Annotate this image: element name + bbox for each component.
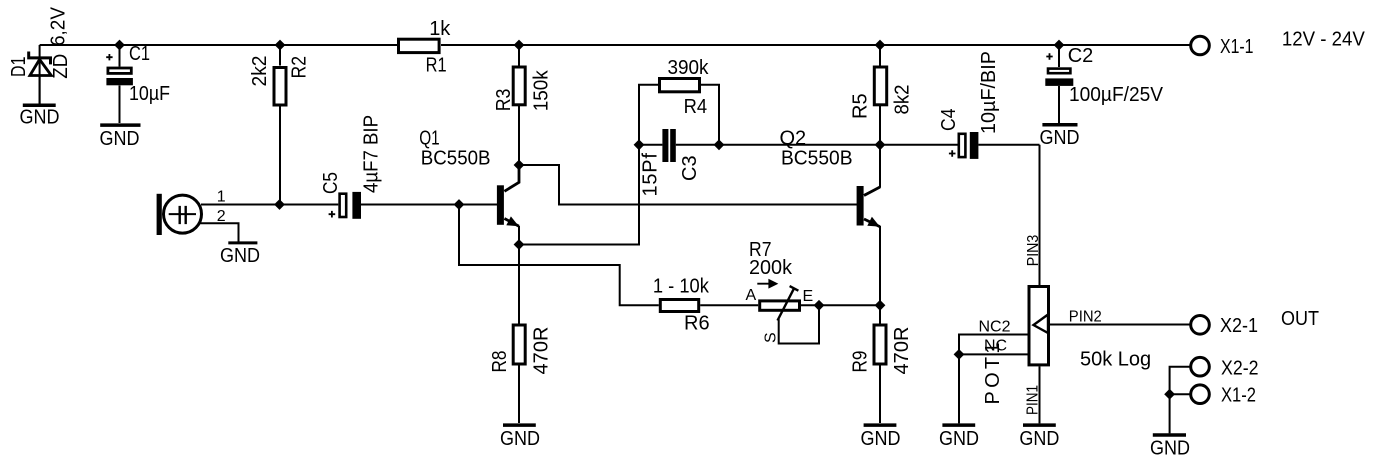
svg-text:10µF: 10µF (129, 83, 170, 105)
ground D1 (23, 104, 56, 108)
wire C3 node to R5 bottom to C4 (719, 144, 958, 146)
svg-text:X1-2: X1-2 (1221, 385, 1256, 407)
wire mic pin2 to gnd (200, 223, 239, 241)
wire R2 leads (279, 45, 281, 205)
transistor Q2 (857, 186, 880, 227)
wire Q1 emitter down to R8 and gnd (518, 226, 520, 423)
node Q1 base (454, 199, 465, 210)
transistor Q1 (497, 165, 519, 226)
resistor R2 (274, 68, 286, 106)
node R2 top (275, 40, 286, 51)
node C3 right (714, 139, 725, 150)
wire top rail left (40, 44, 399, 46)
svg-text:1: 1 (217, 189, 226, 206)
node Q1 collector (514, 160, 525, 171)
svg-text:Q1: Q1 (419, 128, 440, 150)
wire mic pin1 to C5 (201, 204, 338, 206)
svg-text:1 - 10k: 1 - 10k (653, 275, 710, 297)
svg-text:NC: NC (984, 338, 1007, 355)
resistor R4 (660, 79, 700, 92)
svg-text:R9: R9 (849, 351, 871, 373)
node Q2 collector (875, 139, 886, 150)
ground R9 (864, 423, 897, 427)
wire R7 E to Q2 emitter node (801, 304, 880, 306)
svg-text:C5: C5 (320, 172, 342, 194)
svg-text:R2: R2 (289, 56, 311, 79)
svg-text:150k: 150k (530, 69, 552, 111)
terminal X1-1 (1191, 36, 1210, 55)
wire pot NC (959, 354, 1029, 423)
ground C2 (1042, 123, 1077, 127)
wire R7 S loop (779, 305, 819, 343)
node Q2 emitter (875, 300, 886, 311)
resistor R5 (874, 67, 886, 105)
svg-text:PIN1: PIN1 (1025, 385, 1042, 415)
svg-text:GND: GND (1040, 127, 1080, 149)
wire X2-2 X1-2 to gnd (1170, 367, 1191, 434)
resistor R9 (874, 325, 886, 364)
wire D1 vertical (39, 45, 41, 104)
svg-text:GND: GND (861, 428, 901, 450)
svg-text:PIN3: PIN3 (1025, 235, 1042, 267)
svg-text:R5: R5 (850, 93, 872, 119)
ground R8 (503, 423, 536, 427)
wire pot pin2 to X2-1 (1050, 324, 1191, 326)
svg-text:470R: 470R (531, 327, 553, 375)
svg-text:R1: R1 (426, 55, 447, 77)
ground X terminals (1153, 433, 1186, 437)
svg-text:OUT: OUT (1281, 308, 1319, 330)
wire R3 leads (518, 45, 520, 165)
wire R6 to R7 (700, 304, 758, 306)
potentiometer POT1 (1029, 287, 1049, 365)
ground POT1 left (942, 423, 975, 427)
node Q1 emitter (514, 239, 525, 250)
svg-text:A: A (746, 287, 757, 304)
svg-text:BC550B: BC550B (421, 148, 491, 170)
svg-text:2k2: 2k2 (249, 56, 271, 87)
svg-text:X1-1: X1-1 (1220, 36, 1254, 58)
svg-text:ZD: ZD (50, 54, 72, 79)
svg-text:10µF/BIP: 10µF/BIP (978, 51, 1000, 134)
svg-text:D1: D1 (8, 57, 30, 78)
wire C5 to Q1 base (361, 204, 497, 206)
svg-text:X2-2: X2-2 (1221, 358, 1259, 380)
svg-text:4µF7 BIP: 4µF7 BIP (361, 115, 383, 193)
wire top rail right (441, 44, 1191, 46)
svg-text:GND: GND (500, 428, 540, 450)
svg-text:C1: C1 (129, 43, 150, 65)
svg-text:R4: R4 (684, 96, 708, 118)
wire pot pin1 to gnd (1039, 366, 1041, 423)
node X1-2 stub (1164, 389, 1175, 400)
trimmer R7 (757, 280, 799, 320)
node C3 left (634, 139, 645, 150)
resistor R1 (399, 39, 440, 52)
resistor R3 (513, 67, 525, 105)
node C2 top (1054, 40, 1065, 51)
svg-text:R3: R3 (493, 89, 515, 112)
svg-text:C3: C3 (679, 155, 701, 181)
svg-text:50k Log: 50k Log (1080, 348, 1151, 370)
node R7 E (814, 300, 825, 311)
svg-text:12V - 24V: 12V - 24V (1282, 29, 1366, 51)
wire Q1 base tap to R6 (459, 205, 659, 306)
capacitor C5 (329, 192, 361, 219)
microphone MIC (157, 194, 202, 235)
wire C2 leads (1058, 45, 1060, 123)
svg-text:GND: GND (20, 107, 60, 129)
wire C3 leads (639, 144, 719, 146)
capacitor C2 (1045, 53, 1073, 86)
resistor R6 (660, 300, 698, 312)
svg-text:6,2V: 6,2V (48, 6, 70, 46)
node C1 top (114, 40, 125, 51)
svg-text:Q2: Q2 (780, 128, 807, 150)
svg-text:C2: C2 (1068, 45, 1094, 67)
wire R4 loop left (639, 85, 659, 145)
svg-text:S: S (763, 332, 780, 343)
svg-text:X2-1: X2-1 (1220, 315, 1258, 337)
terminal X2-1 (1191, 316, 1210, 335)
wire Q1 collector to Q2 base (519, 165, 857, 205)
wire feedback Q1 emitter to C3 node (519, 145, 639, 245)
svg-text:1k: 1k (429, 18, 451, 40)
terminal X2-2 (1191, 357, 1210, 376)
svg-text:15Pf: 15Pf (640, 153, 662, 197)
svg-text:470R: 470R (891, 327, 913, 375)
svg-text:C4: C4 (938, 109, 960, 132)
ground POT1 pin1 (1023, 423, 1056, 427)
ground C1 (100, 123, 140, 127)
wire R4 loop right (701, 85, 720, 145)
wire C4 to pot pin3 (978, 145, 1039, 286)
wire Q2 emitter down to R9 and gnd (879, 226, 881, 423)
node R5 top (875, 40, 886, 51)
wire R5 leads (879, 45, 881, 145)
capacitor C3 (662, 129, 675, 162)
node NC join (954, 349, 965, 360)
svg-text:GND: GND (939, 428, 979, 450)
svg-text:100µF/25V: 100µF/25V (1069, 84, 1164, 106)
ground mic (228, 241, 257, 244)
zener diode D1 (27, 52, 52, 105)
capacitor C1 (106, 54, 133, 85)
svg-text:8k2: 8k2 (892, 85, 914, 115)
svg-text:GND: GND (1150, 438, 1190, 460)
node R3 top (514, 40, 525, 51)
node mic R2 C5 (274, 199, 285, 210)
svg-text:GND: GND (1019, 428, 1059, 450)
svg-text:PIN2: PIN2 (1069, 308, 1102, 325)
svg-text:NC2: NC2 (979, 319, 1011, 336)
wire C1 leads (119, 45, 121, 123)
svg-text:200k: 200k (749, 257, 793, 279)
svg-text:R8: R8 (489, 351, 511, 373)
capacitor C4 (949, 132, 978, 159)
svg-text:E: E (803, 288, 814, 305)
svg-text:2: 2 (217, 208, 226, 225)
svg-text:BC550B: BC550B (781, 148, 853, 170)
svg-text:R6: R6 (684, 313, 710, 335)
terminal X1-2 (1191, 385, 1210, 404)
resistor R8 (513, 325, 525, 364)
svg-text:GND: GND (220, 245, 260, 267)
svg-text:GND: GND (100, 128, 140, 150)
wire pot NC2 (959, 335, 1029, 355)
svg-text:390k: 390k (668, 57, 710, 79)
wire Q2 collector (864, 145, 880, 195)
